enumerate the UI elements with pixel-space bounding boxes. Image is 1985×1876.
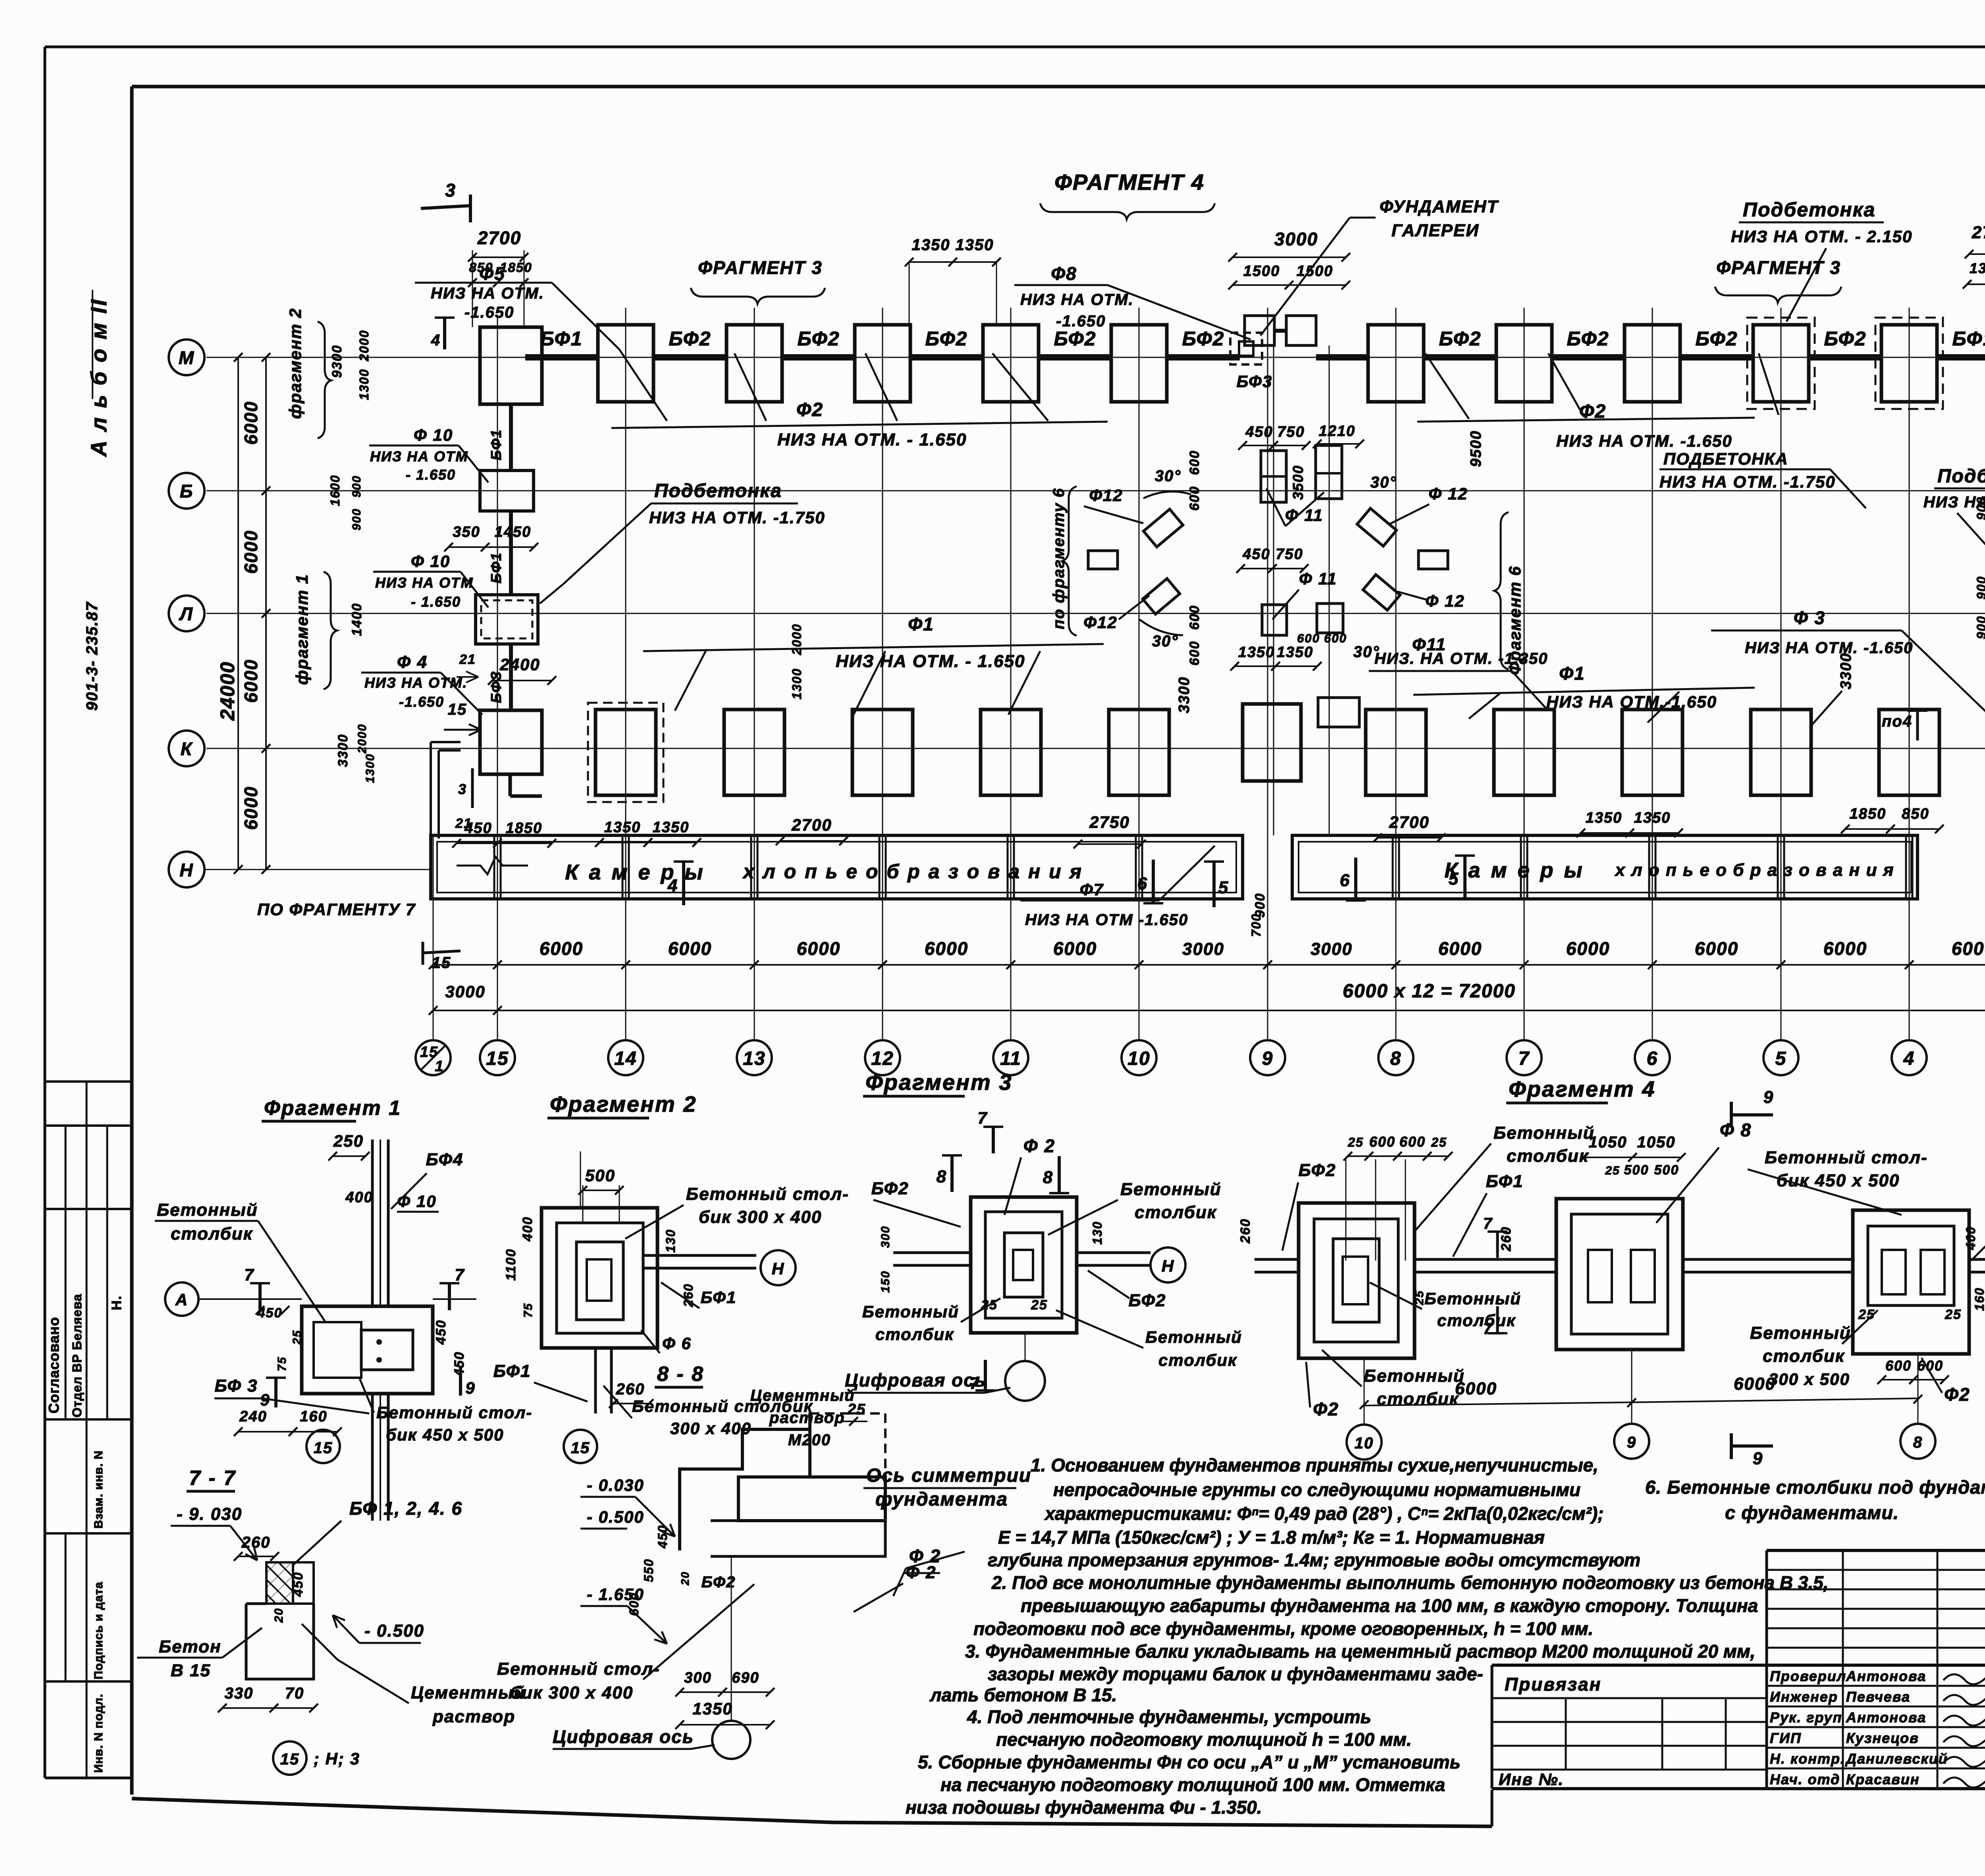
svg-text:750: 750 bbox=[1276, 546, 1303, 563]
svg-text:300: 300 bbox=[879, 1226, 892, 1248]
svg-text:1300: 1300 bbox=[357, 368, 371, 400]
svg-text:НИЗ НА ОТМ. - 1.650: НИЗ НА ОТМ. - 1.650 bbox=[836, 652, 1025, 671]
svg-text:9500: 9500 bbox=[1468, 430, 1484, 467]
svg-text:1350: 1350 bbox=[1970, 260, 1985, 276]
svg-text:Красавин: Красавин bbox=[1846, 1771, 1920, 1787]
svg-text:Бетонный стол-: Бетонный стол- bbox=[686, 1184, 849, 1204]
svg-text:20: 20 bbox=[679, 1571, 691, 1585]
svg-text:Ф 12: Ф 12 bbox=[1425, 592, 1465, 610]
svg-text:2700: 2700 bbox=[791, 816, 832, 834]
svg-text:А л ь б о м II: А л ь б о м II bbox=[86, 298, 111, 457]
svg-text:ФУНДАМЕНТ: ФУНДАМЕНТ bbox=[1380, 197, 1499, 216]
svg-text:Цифровая ось: Цифровая ось bbox=[845, 1370, 986, 1390]
svg-text:Фрагмент 4: Фрагмент 4 bbox=[1509, 1076, 1655, 1101]
svg-text:Бетонный: Бетонный bbox=[157, 1200, 258, 1220]
svg-text:1050: 1050 bbox=[1637, 1134, 1676, 1151]
svg-text:750: 750 bbox=[1277, 424, 1305, 440]
svg-text:БФ 3: БФ 3 bbox=[214, 1376, 258, 1396]
svg-text:3000: 3000 bbox=[445, 982, 485, 1001]
svg-text:К: К bbox=[181, 738, 193, 759]
svg-text:Данилевский: Данилевский bbox=[1845, 1751, 1948, 1767]
svg-text:15: 15 bbox=[571, 1439, 590, 1457]
svg-text:БФ2: БФ2 bbox=[1696, 328, 1738, 350]
svg-text:- 1.650: - 1.650 bbox=[411, 594, 461, 610]
svg-text:Бетонный: Бетонный bbox=[1750, 1323, 1851, 1343]
svg-text:Цементный: Цементный bbox=[750, 1387, 855, 1404]
svg-text:130: 130 bbox=[663, 1229, 678, 1252]
svg-text:; Н; 3: ; Н; 3 bbox=[314, 1749, 360, 1768]
svg-text:260: 260 bbox=[241, 1534, 271, 1551]
svg-text:Ф2: Ф2 bbox=[1944, 1384, 1970, 1405]
svg-text:7: 7 bbox=[1519, 1048, 1530, 1069]
svg-text:2000: 2000 bbox=[357, 330, 371, 361]
svg-text:1350: 1350 bbox=[604, 819, 641, 836]
svg-text:1400: 1400 bbox=[349, 603, 364, 636]
svg-text:1500: 1500 bbox=[1297, 263, 1334, 280]
svg-text:6000: 6000 bbox=[241, 659, 261, 703]
svg-text:1500: 1500 bbox=[1243, 263, 1280, 280]
svg-text:330: 330 bbox=[225, 1685, 254, 1702]
svg-text:Певчева: Певчева bbox=[1846, 1689, 1910, 1705]
svg-text:450: 450 bbox=[655, 1525, 670, 1548]
svg-text:8: 8 bbox=[937, 1167, 947, 1186]
svg-text:600: 600 bbox=[1187, 641, 1202, 666]
svg-text:5: 5 bbox=[1218, 878, 1229, 897]
svg-text:6000: 6000 bbox=[1455, 1379, 1497, 1398]
svg-text:ФРАГМЕНТ 3: ФРАГМЕНТ 3 bbox=[698, 257, 823, 278]
svg-text:6000: 6000 bbox=[1734, 1374, 1776, 1394]
svg-text:фрагмент 1: фрагмент 1 bbox=[293, 574, 311, 685]
svg-text:14: 14 bbox=[614, 1048, 637, 1069]
svg-text:11: 11 bbox=[1000, 1048, 1021, 1069]
svg-text:25: 25 bbox=[1605, 1164, 1620, 1177]
svg-text:6000: 6000 bbox=[925, 938, 968, 959]
svg-text:НИЗ НА ОТМ. - 1.650: НИЗ НА ОТМ. - 1.650 bbox=[777, 430, 967, 449]
svg-text:3000: 3000 bbox=[1310, 939, 1353, 959]
svg-text:фундамента: фундамента bbox=[875, 1489, 1008, 1510]
svg-text:Н.: Н. bbox=[109, 1295, 124, 1310]
svg-text:1. Основанием фундаментов прин: 1. Основанием фундаментов приняты сухие,… bbox=[1031, 1455, 1598, 1475]
svg-text:Л: Л bbox=[179, 603, 193, 624]
svg-text:6000 х 12 = 72000: 6000 х 12 = 72000 bbox=[1343, 981, 1516, 1002]
svg-text:30°: 30° bbox=[1370, 474, 1397, 491]
svg-text:9: 9 bbox=[1753, 1449, 1763, 1468]
svg-text:7 - 7: 7 - 7 bbox=[189, 1467, 236, 1490]
svg-text:15: 15 bbox=[486, 1048, 509, 1069]
svg-text:75: 75 bbox=[276, 1356, 289, 1371]
svg-text:Подбетонка: Подбетонка bbox=[1743, 199, 1875, 221]
svg-text:8 - 8: 8 - 8 bbox=[657, 1363, 704, 1386]
svg-text:Ф12: Ф12 bbox=[1083, 613, 1118, 632]
svg-text:БФ1: БФ1 bbox=[1952, 328, 1985, 350]
svg-text:Бетонный стол-: Бетонный стол- bbox=[497, 1659, 660, 1679]
svg-text:24000: 24000 bbox=[216, 661, 239, 721]
svg-text:600: 600 bbox=[1324, 631, 1347, 645]
svg-text:с фундаментами.: с фундаментами. bbox=[1725, 1502, 1899, 1523]
svg-text:- 0.030: - 0.030 bbox=[587, 1476, 644, 1494]
svg-text:х л о п ь е о б р а з о в а н: х л о п ь е о б р а з о в а н и я bbox=[742, 860, 1083, 883]
svg-text:6: 6 bbox=[1340, 871, 1350, 890]
svg-text:Цифровая ось: Цифровая ось bbox=[553, 1726, 694, 1747]
svg-text:Ф7: Ф7 bbox=[1080, 880, 1104, 899]
svg-text:Фрагмент 2: Фрагмент 2 bbox=[550, 1091, 697, 1116]
svg-text:Ф 3: Ф 3 bbox=[1794, 607, 1825, 628]
svg-text:1350: 1350 bbox=[653, 819, 690, 836]
svg-text:х л о п ь е о б р а з о в а н: х л о п ь е о б р а з о в а н и я bbox=[1615, 860, 1894, 880]
svg-text:6000: 6000 bbox=[1566, 938, 1610, 959]
svg-text:Бетонный стол-: Бетонный стол- bbox=[1765, 1148, 1928, 1167]
svg-text:Н: Н bbox=[772, 1259, 784, 1278]
svg-text:Ф 8: Ф 8 bbox=[1720, 1120, 1752, 1140]
svg-text:30°: 30° bbox=[1155, 467, 1181, 485]
svg-text:25: 25 bbox=[1347, 1135, 1364, 1149]
svg-text:25: 25 bbox=[1031, 1298, 1048, 1313]
svg-text:непросадочные грунты со следую: непросадочные грунты со следующими норма… bbox=[1053, 1479, 1580, 1500]
svg-text:Бетонный стол-: Бетонный стол- bbox=[376, 1403, 532, 1422]
svg-text:БФ1: БФ1 bbox=[1486, 1172, 1524, 1191]
svg-text:6000: 6000 bbox=[1438, 938, 1482, 959]
svg-text:Н: Н bbox=[179, 860, 193, 880]
svg-text:БФ2: БФ2 bbox=[1439, 328, 1482, 350]
svg-text:Проверил: Проверил bbox=[1770, 1668, 1846, 1684]
svg-text:Е = 14,7 МПа (150кгс/см²) ; У: Е = 14,7 МПа (150кгс/см²) ; У = 1.8 т/м³… bbox=[998, 1527, 1545, 1548]
svg-text:БФ2: БФ2 bbox=[1054, 328, 1097, 350]
svg-text:НИЗ НА ОТМ.: НИЗ НА ОТМ. bbox=[1020, 291, 1134, 308]
svg-text:150: 150 bbox=[879, 1271, 892, 1293]
svg-text:4. Под ленточные фундам: 4. Под ленточные фундаменты, устроить bbox=[967, 1706, 1371, 1727]
svg-text:400: 400 bbox=[1964, 1226, 1978, 1250]
svg-text:характеристиками: Фⁿ= 0,49 рад: характеристиками: Фⁿ= 0,49 рад (28°) , С… bbox=[1044, 1503, 1604, 1524]
svg-text:900: 900 bbox=[1974, 496, 1985, 520]
svg-text:ПО ФРАГМЕНТУ 7: ПО ФРАГМЕНТУ 7 bbox=[257, 900, 416, 919]
svg-text:Бетонный: Бетонный bbox=[1424, 1289, 1521, 1308]
svg-text:БФ1: БФ1 bbox=[701, 1288, 737, 1307]
svg-text:7: 7 bbox=[455, 1265, 464, 1284]
svg-text:260: 260 bbox=[1499, 1226, 1514, 1252]
svg-text:450: 450 bbox=[291, 1572, 306, 1597]
svg-text:А: А bbox=[175, 1290, 188, 1309]
svg-text:450: 450 bbox=[434, 1320, 449, 1345]
svg-text:Цементный: Цементный bbox=[411, 1683, 525, 1702]
svg-text:600: 600 bbox=[1187, 486, 1202, 511]
svg-text:подготовки под все фундамен: подготовки под все фундаменты, кроме ого… bbox=[973, 1618, 1593, 1639]
svg-text:25: 25 bbox=[1945, 1307, 1962, 1322]
svg-text:Бетон: Бетон bbox=[159, 1637, 222, 1656]
svg-text:450: 450 bbox=[1242, 546, 1270, 563]
svg-text:БФ2: БФ2 bbox=[798, 328, 840, 350]
svg-text:6000: 6000 bbox=[540, 938, 583, 959]
svg-text:690: 690 bbox=[732, 1670, 759, 1686]
svg-text:фрагмент 2: фрагмент 2 bbox=[286, 308, 304, 419]
svg-text:Б: Б bbox=[180, 481, 194, 501]
svg-text:6000: 6000 bbox=[241, 401, 261, 445]
svg-text:2000: 2000 bbox=[790, 623, 804, 655]
svg-text:превышающую габариты фундам: превышающую габариты фундамента на 100 м… bbox=[1021, 1595, 1758, 1616]
svg-text:1210: 1210 bbox=[1319, 423, 1356, 440]
svg-text:ПОДБЕТОНКА: ПОДБЕТОНКА bbox=[1663, 449, 1788, 468]
svg-text:НИЗ НА ОТМ -1.650: НИЗ НА ОТМ -1.650 bbox=[1025, 911, 1188, 929]
svg-text:К а м е р ы: К а м е р ы bbox=[565, 860, 705, 884]
svg-text:900: 900 bbox=[1974, 576, 1985, 599]
svg-text:раствор: раствор bbox=[769, 1409, 845, 1427]
svg-text:НИЗ НА ОТМ: НИЗ НА ОТМ bbox=[375, 575, 473, 591]
svg-text:БФ2: БФ2 bbox=[1129, 1291, 1166, 1310]
svg-text:БФ1: БФ1 bbox=[488, 552, 504, 584]
svg-text:1600: 1600 bbox=[328, 474, 342, 506]
svg-text:6: 6 bbox=[1647, 1048, 1658, 1069]
svg-text:9: 9 bbox=[465, 1379, 475, 1397]
svg-text:- 9. 030: - 9. 030 bbox=[177, 1504, 242, 1524]
svg-text:3. Фундаментные балки уклад: 3. Фундаментные балки укладывать на цеме… bbox=[965, 1641, 1756, 1662]
svg-text:Привязан: Привязан bbox=[1505, 1674, 1601, 1695]
svg-text:70: 70 bbox=[285, 1685, 304, 1702]
svg-text:БФЗ: БФЗ bbox=[488, 671, 504, 703]
svg-text:600: 600 bbox=[1187, 450, 1202, 475]
svg-text:лать бетоном В 15.: лать бетоном В 15. bbox=[929, 1685, 1117, 1705]
svg-text:600: 600 bbox=[1885, 1357, 1912, 1374]
svg-text:зазоры между торцами балок: зазоры между торцами балок и фундаментам… bbox=[988, 1664, 1483, 1684]
svg-text:столбик: столбик bbox=[1135, 1203, 1217, 1222]
svg-text:6000: 6000 bbox=[797, 938, 840, 959]
svg-text:6000: 6000 bbox=[1053, 938, 1097, 959]
svg-text:НИЗ НА ОТМ.-1.650: НИЗ НА ОТМ.-1.650 bbox=[1546, 692, 1717, 711]
svg-text:Подпись и дата: Подпись и дата bbox=[92, 1582, 105, 1679]
svg-text:240: 240 bbox=[239, 1408, 267, 1425]
svg-text:900: 900 bbox=[350, 508, 363, 530]
svg-text:Ф 2: Ф 2 bbox=[1023, 1136, 1055, 1156]
svg-text:по4: по4 bbox=[1882, 713, 1912, 730]
svg-text:БФ4: БФ4 bbox=[426, 1150, 464, 1169]
svg-text:9: 9 bbox=[1627, 1434, 1636, 1451]
svg-text:550: 550 bbox=[642, 1558, 656, 1582]
svg-text:6000: 6000 bbox=[241, 786, 261, 830]
svg-text:260: 260 bbox=[1238, 1219, 1253, 1244]
svg-text:Бетонный: Бетонный bbox=[1120, 1180, 1222, 1199]
svg-text:Взам. инв. N: Взам. инв. N bbox=[92, 1450, 105, 1529]
svg-text:15: 15 bbox=[448, 701, 467, 718]
svg-text:700: 700 bbox=[1249, 913, 1263, 937]
svg-text:10: 10 bbox=[1355, 1434, 1374, 1452]
svg-text:160: 160 bbox=[300, 1408, 327, 1425]
svg-text:БФ2: БФ2 bbox=[1182, 328, 1225, 350]
svg-text:Отдел ВР Беляева: Отдел ВР Беляева bbox=[70, 1294, 84, 1417]
svg-text:6. Бетонные столбики под ф: 6. Бетонные столбики под фундаментные ба… bbox=[1645, 1477, 1985, 1498]
svg-text:столбик: столбик bbox=[875, 1325, 954, 1344]
svg-text:Инженер: Инженер bbox=[1770, 1689, 1838, 1705]
svg-text:500: 500 bbox=[585, 1166, 615, 1185]
svg-text:900: 900 bbox=[350, 475, 363, 497]
svg-text:4: 4 bbox=[431, 332, 441, 349]
svg-text:3000: 3000 bbox=[1274, 229, 1318, 249]
svg-text:Подбетонка: Подбетонка bbox=[1937, 466, 1985, 487]
svg-text:8: 8 bbox=[1390, 1048, 1402, 1069]
svg-text:НИЗ НА ОТМ. - 2.150: НИЗ НА ОТМ. - 2.150 bbox=[1731, 227, 1912, 246]
svg-text:2400: 2400 bbox=[499, 655, 540, 674]
svg-text:Ф 4: Ф 4 bbox=[397, 652, 428, 672]
svg-text:ФРАГМЕНТ 4: ФРАГМЕНТ 4 bbox=[1054, 170, 1204, 195]
svg-text:1300: 1300 bbox=[364, 754, 377, 783]
svg-text:8: 8 bbox=[1913, 1434, 1923, 1451]
svg-text:6000: 6000 bbox=[1823, 938, 1867, 959]
svg-text:Ф2: Ф2 bbox=[1313, 1399, 1339, 1419]
svg-text:столбик: столбик bbox=[1763, 1346, 1845, 1366]
svg-text:Ф 11: Ф 11 bbox=[1299, 569, 1337, 588]
svg-text:600: 600 bbox=[1399, 1134, 1426, 1150]
svg-text:2000: 2000 bbox=[356, 724, 369, 754]
svg-text:на песчаную подготовку то: на песчаную подготовку толщиной 100 мм. … bbox=[940, 1774, 1445, 1795]
svg-text:2700: 2700 bbox=[477, 228, 521, 248]
svg-text:БФ2: БФ2 bbox=[871, 1179, 909, 1198]
svg-text:1450: 1450 bbox=[495, 524, 532, 540]
svg-text:6000: 6000 bbox=[241, 530, 261, 574]
svg-text:250: 250 bbox=[333, 1132, 364, 1150]
svg-text:Антонова: Антонова bbox=[1846, 1668, 1926, 1684]
svg-text:1350: 1350 bbox=[912, 236, 950, 254]
svg-text:ГИП: ГИП bbox=[1770, 1730, 1802, 1746]
svg-text:ГАЛЕРЕИ: ГАЛЕРЕИ bbox=[1391, 221, 1479, 240]
svg-text:2750: 2750 bbox=[1089, 813, 1129, 831]
svg-text:3300: 3300 bbox=[1838, 653, 1854, 690]
svg-text:3500: 3500 bbox=[1290, 465, 1306, 500]
svg-text:130: 130 bbox=[1090, 1221, 1104, 1244]
svg-text:20: 20 bbox=[272, 1608, 285, 1623]
svg-text:6000: 6000 bbox=[668, 938, 712, 959]
svg-text:600: 600 bbox=[1297, 631, 1320, 645]
svg-text:300 х 400: 300 х 400 bbox=[670, 1419, 752, 1438]
svg-text:Согласовано: Согласовано bbox=[46, 1317, 62, 1413]
svg-text:Антонова: Антонова bbox=[1846, 1709, 1926, 1726]
svg-text:столбик: столбик bbox=[1437, 1311, 1516, 1330]
svg-text:БФ1: БФ1 bbox=[488, 429, 504, 461]
svg-text:1350: 1350 bbox=[1238, 644, 1275, 661]
svg-text:песчаную подготовку толщиной: песчаную подготовку толщиной h = 100 мм. bbox=[996, 1729, 1412, 1750]
svg-text:Бетонный: Бетонный bbox=[862, 1302, 959, 1321]
svg-text:13: 13 bbox=[743, 1048, 765, 1069]
svg-text:глубина промерзания грунтов-: глубина промерзания грунтов- 1.4м; грунт… bbox=[988, 1550, 1640, 1570]
svg-text:бик 450 х 500: бик 450 х 500 bbox=[1777, 1171, 1900, 1190]
svg-text:12: 12 bbox=[871, 1048, 894, 1069]
svg-text:1300: 1300 bbox=[790, 668, 804, 699]
svg-text:бик 450 х 500: бик 450 х 500 bbox=[386, 1425, 504, 1444]
svg-text:75: 75 bbox=[522, 1303, 535, 1317]
svg-text:НИЗ НА ОТМ. -1.650: НИЗ НА ОТМ. -1.650 bbox=[1556, 432, 1733, 450]
svg-text:М: М bbox=[179, 347, 195, 368]
svg-text:300: 300 bbox=[684, 1670, 711, 1686]
svg-text:ФРАГМЕНТ 3: ФРАГМЕНТ 3 bbox=[1716, 257, 1841, 278]
svg-text:Ф1: Ф1 bbox=[1559, 663, 1585, 684]
svg-text:7: 7 bbox=[244, 1265, 254, 1284]
svg-text:БФ2: БФ2 bbox=[1299, 1161, 1336, 1180]
svg-text:15: 15 bbox=[314, 1439, 333, 1457]
svg-text:25: 25 bbox=[291, 1330, 304, 1345]
svg-text:бик 300 х 400: бик 300 х 400 bbox=[510, 1683, 633, 1702]
svg-text:Рук. груп: Рук. груп bbox=[1770, 1709, 1842, 1726]
svg-text:НИЗ НА ОТМ.: НИЗ НА ОТМ. bbox=[431, 285, 544, 302]
svg-text:500: 500 bbox=[1624, 1163, 1649, 1178]
svg-text:Ф5: Ф5 bbox=[479, 263, 505, 284]
svg-text:К а м е р ы: К а м е р ы bbox=[1444, 858, 1584, 882]
svg-text:Ф 10: Ф 10 bbox=[397, 1192, 436, 1211]
svg-text:столбик: столбик bbox=[1507, 1146, 1589, 1166]
svg-text:Ф 10: Ф 10 bbox=[411, 552, 450, 571]
svg-text:столбик: столбик bbox=[1158, 1351, 1237, 1369]
svg-text:1350: 1350 bbox=[692, 1699, 732, 1718]
svg-text:-1.650: -1.650 bbox=[464, 304, 514, 321]
svg-text:25: 25 bbox=[1431, 1135, 1447, 1149]
svg-text:1: 1 bbox=[435, 1058, 444, 1075]
svg-text:400: 400 bbox=[520, 1217, 535, 1242]
svg-text:столбик: столбик bbox=[171, 1224, 253, 1244]
svg-text:6000: 6000 bbox=[1952, 938, 1985, 959]
svg-text:6000: 6000 bbox=[1695, 938, 1738, 959]
svg-text:7: 7 bbox=[977, 1109, 987, 1127]
svg-text:3300: 3300 bbox=[1176, 677, 1193, 713]
svg-text:Фрагмент 1: Фрагмент 1 bbox=[264, 1097, 401, 1120]
svg-text:2. Под все монолитные фунда: 2. Под все монолитные фундаменты выполни… bbox=[991, 1572, 1829, 1593]
svg-text:10: 10 bbox=[1127, 1048, 1150, 1069]
svg-text:3: 3 bbox=[445, 180, 456, 201]
svg-text:-1.650: -1.650 bbox=[1056, 312, 1106, 330]
svg-text:8: 8 bbox=[1043, 1168, 1053, 1187]
svg-text:260: 260 bbox=[616, 1380, 645, 1398]
svg-text:БФ3: БФ3 bbox=[1237, 372, 1273, 391]
svg-text:НИЗ НА ОТМ. -1.750: НИЗ НА ОТМ. -1.750 bbox=[649, 508, 825, 527]
svg-text:400: 400 bbox=[345, 1189, 373, 1206]
svg-text:БФ 1, 2, 4. 6: БФ 1, 2, 4. 6 bbox=[349, 1498, 463, 1519]
svg-text:30°: 30° bbox=[1152, 632, 1179, 650]
svg-text:15: 15 bbox=[280, 1751, 300, 1768]
svg-text:21: 21 bbox=[459, 652, 476, 667]
svg-text:БФ2: БФ2 bbox=[701, 1573, 736, 1591]
svg-text:2700: 2700 bbox=[1389, 813, 1429, 831]
svg-text:350: 350 bbox=[453, 524, 480, 540]
svg-text:2700: 2700 bbox=[1972, 223, 1985, 242]
svg-text:-1.650: -1.650 bbox=[399, 694, 444, 710]
svg-text:НИЗ НА ОТМ. -1.750: НИЗ НА ОТМ. -1.750 bbox=[1659, 472, 1836, 491]
svg-text:900: 900 bbox=[1974, 615, 1985, 639]
svg-text:БФ1: БФ1 bbox=[540, 328, 583, 350]
svg-text:Бетонный: Бетонный bbox=[1494, 1123, 1595, 1143]
svg-text:Н. контр.: Н. контр. bbox=[1770, 1751, 1845, 1767]
svg-text:Ф 12: Ф 12 bbox=[1428, 484, 1468, 503]
svg-text:3000: 3000 bbox=[1182, 939, 1224, 959]
svg-text:25: 25 bbox=[847, 1401, 866, 1418]
svg-text:В 15: В 15 bbox=[171, 1661, 211, 1680]
svg-text:НИЗ НА ОТМ. -1.650: НИЗ НА ОТМ. -1.650 bbox=[1745, 639, 1913, 657]
svg-text:БФ2: БФ2 bbox=[925, 328, 968, 350]
svg-text:Подбетонка: Подбетонка bbox=[654, 480, 782, 501]
svg-text:БФ2: БФ2 bbox=[1824, 328, 1867, 350]
svg-text:9300: 9300 bbox=[330, 345, 345, 378]
svg-text:1350: 1350 bbox=[1634, 810, 1671, 826]
svg-text:600: 600 bbox=[627, 1592, 641, 1616]
svg-text:Инв. N подл.: Инв. N подл. bbox=[92, 1694, 105, 1773]
svg-text:1350: 1350 bbox=[1586, 810, 1623, 826]
svg-text:5. Сборные фундаменты Фн с: 5. Сборные фундаменты Фн со оси „А” и „М… bbox=[918, 1752, 1461, 1772]
svg-text:Ф2: Ф2 bbox=[796, 399, 823, 420]
svg-text:- 1.650: - 1.650 bbox=[406, 467, 456, 483]
svg-text:450: 450 bbox=[1245, 424, 1273, 440]
svg-text:Кузнецов: Кузнецов bbox=[1846, 1730, 1919, 1746]
svg-text:1350: 1350 bbox=[1277, 644, 1314, 661]
svg-text:3: 3 bbox=[458, 781, 467, 797]
svg-text:Н: Н bbox=[1162, 1257, 1174, 1275]
svg-text:НИЗ НА ОТМ: НИЗ НА ОТМ bbox=[370, 448, 468, 465]
svg-text:Ф12: Ф12 bbox=[1089, 486, 1123, 505]
svg-text:600: 600 bbox=[1369, 1134, 1395, 1150]
svg-text:9: 9 bbox=[1763, 1087, 1774, 1107]
svg-text:Ф 10: Ф 10 bbox=[414, 426, 453, 444]
